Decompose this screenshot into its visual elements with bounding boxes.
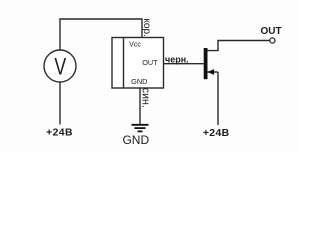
svg-text:син.: син. bbox=[140, 88, 152, 108]
svg-text:+24В: +24В bbox=[203, 128, 230, 139]
svg-text:черн.: черн. bbox=[165, 55, 189, 65]
svg-text:V: V bbox=[54, 54, 66, 80]
svg-text:GND: GND bbox=[122, 133, 149, 147]
svg-text:Vcc: Vcc bbox=[129, 42, 141, 49]
svg-text:OUT: OUT bbox=[142, 58, 158, 67]
svg-text:GND: GND bbox=[131, 77, 147, 86]
svg-text:OUT: OUT bbox=[260, 26, 281, 37]
svg-text:+24В: +24В bbox=[46, 127, 73, 138]
svg-text:кор.: кор. bbox=[141, 18, 152, 36]
